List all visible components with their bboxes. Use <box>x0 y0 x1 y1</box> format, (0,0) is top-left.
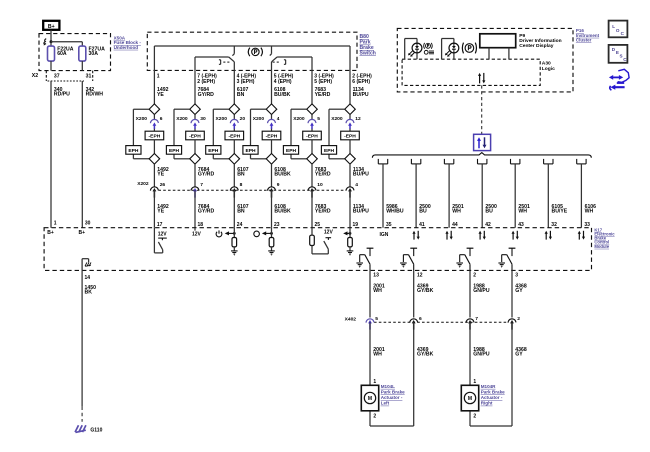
wire B80 pin to splice column 3 <box>233 70 235 104</box>
wire -EPH box to splice column 1 <box>153 140 155 154</box>
svg-text:BN: BN <box>237 172 245 178</box>
wire from B+ to fuse block <box>50 30 52 42</box>
wire 2501 WH label <box>518 204 530 215</box>
wire 340 RD/PU label <box>54 87 70 98</box>
bus drop connector symbol 4 <box>478 159 487 164</box>
svg-text:GY/RD: GY/RD <box>198 92 215 98</box>
svg-text:20: 20 <box>240 116 246 122</box>
ground G110 <box>75 425 102 433</box>
connector X402 terminal pin 2 <box>508 316 520 329</box>
wire 1450 BK ground run <box>81 270 83 406</box>
EPH harness box column 4 <box>243 146 258 155</box>
svg-text:YE: YE <box>157 172 164 178</box>
svg-text:WH: WH <box>452 209 461 215</box>
svg-text:4 (EPH): 4 (EPH) <box>274 79 292 85</box>
connector X402 terminal pin 7 <box>466 316 478 329</box>
svg-text:Actuator -: Actuator - <box>381 395 403 400</box>
svg-text:M: M <box>368 396 372 402</box>
wire X200 to -EPH box column 4 <box>271 129 273 131</box>
svg-text:25: 25 <box>315 222 321 228</box>
svg-text:19: 19 <box>353 222 359 228</box>
svg-text:WH/BU: WH/BU <box>386 209 404 215</box>
svg-text:YE/RD: YE/RD <box>315 92 331 98</box>
wire 2001 WH label above X402 <box>373 283 385 294</box>
svg-text:BU/PU: BU/PU <box>353 209 369 215</box>
park brake telltale icon small <box>424 43 433 49</box>
M104R pin 2 label <box>473 413 476 419</box>
wire 6106 WH label <box>585 204 597 215</box>
fuse block X50A dashed box <box>39 34 111 71</box>
wire splice to X202 column 5 <box>311 164 313 187</box>
module pin 1 label <box>54 221 57 227</box>
module internal pull-up and 12V switch at pin 25 <box>310 228 334 254</box>
A30 logic label <box>542 60 555 71</box>
svg-text:GN/PU: GN/PU <box>473 288 490 294</box>
svg-text:30A: 30A <box>89 51 99 57</box>
wire 1492 YE label below X202 <box>157 204 169 215</box>
svg-text:17: 17 <box>157 222 163 228</box>
description view icon box DESC <box>609 45 628 63</box>
wire splice to X202 column 6 <box>349 164 351 187</box>
wire X200 to -EPH box column 3 <box>233 129 235 131</box>
svg-text:12V: 12V <box>192 232 202 238</box>
wire B80 pin to splice column 4 <box>271 70 273 104</box>
svg-text:B+: B+ <box>48 24 55 30</box>
connector X402 label <box>345 317 357 323</box>
module pin 14 label <box>85 275 91 281</box>
park brake switch B80 dashed box <box>147 32 357 70</box>
svg-text:Module: Module <box>594 244 609 249</box>
module pin 41 label right group <box>419 222 425 228</box>
svg-text:GY: GY <box>515 288 523 294</box>
wire B80 pin to splice column 5 <box>311 70 313 104</box>
svg-text:-EPH: -EPH <box>149 134 161 140</box>
svg-text:13: 13 <box>373 273 379 279</box>
fuse block label X50A <box>114 36 142 50</box>
wire splice to X200 column 3 <box>233 115 235 120</box>
svg-text:EPH: EPH <box>324 148 335 154</box>
svg-text:44: 44 <box>452 222 458 228</box>
svg-text:BU/BK: BU/BK <box>274 92 291 98</box>
splice diamond bottom column 4 <box>266 154 277 165</box>
svg-text:5 (EPH): 5 (EPH) <box>314 79 332 85</box>
svg-text:-EPH: -EPH <box>344 134 356 140</box>
svg-text:-EPH: -EPH <box>189 134 201 140</box>
module internal B+ label pin 1 <box>47 230 54 236</box>
bus drop connector symbol 6 <box>544 159 553 164</box>
svg-text:30: 30 <box>200 116 206 122</box>
wire 2500 BU to module <box>415 164 417 228</box>
svg-text:41: 41 <box>419 222 425 228</box>
svg-text:YE: YE <box>157 209 164 215</box>
wire splice to X202 column 2 <box>194 164 196 187</box>
wire 7683 YE/RD label above X202 <box>315 167 331 178</box>
wire 2501 WH label <box>452 204 464 215</box>
module pin 13 label bottom <box>373 273 379 279</box>
wire splice to X200 column 5 <box>311 115 313 120</box>
svg-text:33: 33 <box>584 222 590 228</box>
module label K17 <box>594 227 615 248</box>
wire 1134 BU/PU label below B80 <box>353 87 369 98</box>
module serial data arrows under pin 32 <box>545 231 552 240</box>
serial data link symbol <box>474 134 491 150</box>
wire -EPH box to splice column 4 <box>271 140 273 154</box>
svg-text:WH: WH <box>518 209 527 215</box>
fuse F22UA 60A <box>48 42 74 61</box>
EPH harness box column 3 <box>206 146 221 155</box>
svg-text:EPH: EPH <box>128 148 139 154</box>
wire B80 pin to splice column 1 <box>153 70 155 104</box>
splice diamond bottom column 3 <box>229 154 240 165</box>
park brake switch label B80 <box>360 34 376 56</box>
wire splice to X202 column 1 <box>153 164 155 187</box>
svg-text:1: 1 <box>473 379 476 385</box>
A30 serial data arrows <box>478 73 485 84</box>
wire 1988 GN/PU label below X402 <box>473 347 490 358</box>
wire X202 to module column 1 <box>153 190 155 227</box>
svg-text:GY/BK: GY/BK <box>417 288 434 294</box>
module serial data arrows under pin 41 <box>412 231 419 240</box>
svg-text:-EPH: -EPH <box>228 134 240 140</box>
svg-text:EPH: EPH <box>208 148 219 154</box>
svg-text:RD/WH: RD/WH <box>86 91 104 97</box>
wire driver to module edge pin 13 <box>369 270 371 317</box>
svg-text:23: 23 <box>274 222 280 228</box>
wire 2500 BU to module <box>481 164 483 228</box>
module pin 35 label right group <box>386 222 392 228</box>
svg-text:2: 2 <box>473 413 476 419</box>
EPH branch wire column 5 <box>291 109 307 159</box>
B80 internal supply bus wire <box>154 45 350 47</box>
wire 4369 GY/BK label below X402 <box>417 347 434 358</box>
connector X402 terminal pin 5 <box>366 316 378 329</box>
location view icon box LOC <box>609 21 628 38</box>
current direction curl at fuse block feed <box>44 39 47 46</box>
svg-text:1: 1 <box>54 221 57 227</box>
wire X202 to module column 4 <box>271 190 273 227</box>
B80 pin label column 1 <box>157 74 160 80</box>
module pin 17 label <box>157 222 163 228</box>
svg-text:31: 31 <box>86 73 92 79</box>
wire 4368 GY label below X402 <box>515 347 527 358</box>
connector X2 <box>32 71 93 81</box>
svg-text:7: 7 <box>475 316 478 322</box>
wire X202 to module column 2 <box>194 190 196 227</box>
wire F22UA to connector X2 <box>50 61 52 71</box>
svg-text:-EPH: -EPH <box>306 134 318 140</box>
svg-text:26: 26 <box>160 182 166 188</box>
wire 1134 BU/PU label above X202 <box>353 167 369 178</box>
wire 6105 BU/YE to module <box>547 164 549 228</box>
connector X202 dashed link line <box>158 189 346 191</box>
P9 label <box>519 33 561 49</box>
wire splice to X202 column 3 <box>233 164 235 187</box>
instrument cluster P16 dashed box <box>397 28 573 92</box>
wire 2001 WH label below X402 <box>373 347 385 358</box>
svg-text:Left: Left <box>381 401 390 406</box>
bus drop connector symbol 1 <box>378 159 387 164</box>
svg-text:14: 14 <box>85 275 91 281</box>
park brake actuator right M104R <box>461 385 478 411</box>
EPH harness box column 2 <box>166 146 181 155</box>
svg-text:BU/PU: BU/PU <box>353 172 369 178</box>
svg-text:10: 10 <box>317 182 323 188</box>
module internal H-bridge driver pin 3 <box>498 248 515 270</box>
wire X200 to -EPH box column 2 <box>194 129 196 131</box>
svg-text:BU: BU <box>485 209 493 215</box>
wire 1988 GN/PU label above X402 <box>473 283 490 294</box>
svg-text:9: 9 <box>277 182 280 188</box>
wire 6107 BN label above X202 <box>237 167 249 178</box>
module pin 25 label <box>315 222 321 228</box>
serial data dashed wire cluster to bus <box>481 85 483 134</box>
svg-text:BU/YE: BU/YE <box>552 209 568 215</box>
park brake indicator LED 2 <box>442 39 459 60</box>
svg-text:2: 2 <box>473 273 476 279</box>
junction dot at fuse bus <box>50 40 53 43</box>
B80 release switch detent marks right <box>273 60 286 65</box>
-EPH harness box column 6 <box>341 131 360 140</box>
connector X200 column 3 <box>216 116 246 129</box>
svg-text:YE/RD: YE/RD <box>315 209 331 215</box>
splice diamond top column 6 <box>345 104 356 115</box>
wire B80 pin to splice column 2 <box>194 70 196 104</box>
B80 park brake button symbol (P) <box>248 48 262 57</box>
park brake actuator left M104L <box>361 385 378 411</box>
park brake indicator LED 1 <box>405 39 422 60</box>
splice diamond bottom column 5 <box>307 154 318 165</box>
B80 apply switch blade left <box>195 57 234 70</box>
M104L label <box>381 384 405 406</box>
wire 342 RD/WH label <box>86 87 104 98</box>
B80 switch contact stub left <box>232 46 234 56</box>
EPH harness box column 1 <box>126 146 141 155</box>
module pin 12 label bottom <box>417 273 423 279</box>
wire 2501 WH to module <box>514 164 516 228</box>
module internal sense input pin 19 <box>343 228 353 256</box>
connector X202 terminal column 4 pin 9 <box>268 182 280 198</box>
connector X202 terminal column 5 pin 10 <box>308 182 323 198</box>
wire B80 bus to pin 2/6 <box>349 46 351 70</box>
svg-text:3 (EPH): 3 (EPH) <box>237 79 255 85</box>
svg-text:5: 5 <box>375 316 378 322</box>
splice diamond top column 5 <box>307 104 318 115</box>
wire 6107 BN label below X202 <box>237 204 249 215</box>
module pin 44 label right group <box>452 222 458 228</box>
svg-text:B+: B+ <box>47 230 54 236</box>
svg-text:Switch: Switch <box>360 50 376 56</box>
module internal H-bridge driver pin 2 <box>456 248 473 270</box>
svg-text:X402: X402 <box>345 317 357 323</box>
module internal B+ label pin 30 <box>79 230 86 236</box>
wire driver to module edge pin 3 <box>511 270 513 317</box>
electronic brake control module K17 dashed box <box>44 228 591 271</box>
svg-text:X200: X200 <box>331 116 343 122</box>
svg-text:12: 12 <box>355 116 361 122</box>
svg-text:5: 5 <box>317 116 320 122</box>
connector X200 column 6 <box>331 116 361 129</box>
bus drop connector symbol 2 <box>411 159 420 164</box>
svg-text:35: 35 <box>386 222 392 228</box>
wire 6105 BU/YE label <box>552 204 568 215</box>
svg-text:BN: BN <box>237 92 245 98</box>
connector X202 label <box>137 181 149 187</box>
park brake telltale icon large <box>462 43 476 54</box>
fuse F27UA 30A <box>79 46 105 61</box>
wire 4369 GY/BK label above X402 <box>417 283 434 294</box>
svg-text:X202: X202 <box>137 181 149 187</box>
svg-text:EPH: EPH <box>286 148 297 154</box>
svg-text:X200: X200 <box>216 116 228 122</box>
svg-text:GY/RD: GY/RD <box>198 209 215 215</box>
svg-text:4: 4 <box>277 116 280 122</box>
module pin 19 label <box>353 222 359 228</box>
svg-text:GY/BK: GY/BK <box>417 352 434 358</box>
svg-text:24: 24 <box>237 222 243 228</box>
connector X202 terminal column 6 pin 4 <box>346 182 358 198</box>
bus drop connector symbol 5 <box>511 159 520 164</box>
svg-text:32: 32 <box>551 222 557 228</box>
svg-text:Park Brake: Park Brake <box>381 390 405 395</box>
wire splice to X202 column 4 <box>271 164 273 187</box>
EPH branch wire column 2 <box>174 109 190 159</box>
wire X202 to module column 3 <box>233 190 235 227</box>
M104L pin 2 label <box>373 413 376 419</box>
wire 342 RD/WH to K17 pin 30 <box>81 81 83 228</box>
module internal H-bridge driver pin 12 <box>400 248 417 270</box>
svg-text:42: 42 <box>485 222 491 228</box>
svg-text:2: 2 <box>373 413 376 419</box>
wire X202 to module column 6 <box>349 190 351 227</box>
A30 logic dashed box <box>402 59 540 85</box>
wire -EPH box to splice column 3 <box>233 140 235 154</box>
wire 4369 GY/BK to M104L pin 2 <box>370 322 414 426</box>
svg-text:GN/PU: GN/PU <box>473 352 490 358</box>
splice diamond bottom column 1 <box>149 154 160 165</box>
B80 switch contact stub right <box>270 46 272 56</box>
svg-text:Right: Right <box>481 401 493 406</box>
connector X202 terminal column 1 pin 26 <box>150 182 165 198</box>
svg-text:L: L <box>612 24 615 29</box>
module pin 18 label <box>198 222 204 228</box>
svg-text:BU/BK: BU/BK <box>274 209 291 215</box>
svg-text:12: 12 <box>417 273 423 279</box>
instrument cluster label P16 <box>576 28 600 42</box>
module serial data arrows under pin 44 <box>445 231 452 240</box>
wire 7683 YE/RD label below B80 <box>315 87 331 98</box>
B80 pin label column 2 <box>197 74 217 85</box>
module serial data arrows under pin 33 <box>578 231 585 240</box>
connector X402 dashed link line <box>374 321 508 323</box>
B80 pin label column 3 <box>237 74 257 85</box>
B80 release switch blade right <box>272 57 313 70</box>
module serial data arrows under pin 42 <box>479 231 486 240</box>
wire -EPH box to splice column 5 <box>311 140 313 154</box>
svg-text:2: 2 <box>517 316 520 322</box>
wire 6107 BN label below B80 <box>237 87 249 98</box>
wire driver to module edge pin 2 <box>469 270 471 317</box>
svg-text:X2: X2 <box>32 73 38 79</box>
module internal H-bridge driver pin 13 <box>356 248 373 270</box>
module pin 32 label right group <box>551 222 557 228</box>
svg-text:BU: BU <box>419 209 427 215</box>
module pin 33 label right group <box>584 222 590 228</box>
svg-text:Center Display: Center Display <box>519 43 554 49</box>
wire 4368 GY to M104R pin 2 <box>470 322 512 426</box>
wire 5986 WH/BU label <box>386 204 404 215</box>
splice diamond top column 3 <box>229 104 240 115</box>
svg-text:X200: X200 <box>253 116 265 122</box>
wire splice to X200 column 6 <box>349 115 351 120</box>
B80 pin label column 4 <box>274 74 294 85</box>
svg-text:30: 30 <box>85 221 91 227</box>
svg-text:X200: X200 <box>176 116 188 122</box>
module pin 23 label <box>274 222 280 228</box>
module internal indicator driver pin 23 <box>254 228 275 256</box>
svg-text:3: 3 <box>515 273 518 279</box>
module pin 30 label <box>85 221 91 227</box>
wire 1492 YE label above X202 <box>157 167 169 178</box>
wire 2501 WH to module <box>448 164 450 228</box>
wire 1134 BU/PU label below X202 <box>353 204 369 215</box>
svg-text:WH: WH <box>373 288 382 294</box>
wire 6108 BU/BK label below B80 <box>274 87 291 98</box>
module pin 2 label bottom <box>473 273 476 279</box>
module pin 3 label bottom <box>515 273 518 279</box>
wire splice to X200 column 1 <box>153 115 155 120</box>
wire X200 to -EPH box column 1 <box>153 129 155 131</box>
svg-text:O: O <box>616 28 620 33</box>
svg-text:S: S <box>620 54 623 59</box>
svg-text:G110: G110 <box>90 427 102 433</box>
EPH branch wire column 1 <box>133 109 149 159</box>
EPH harness box column 5 <box>283 146 298 155</box>
svg-text:Underhood: Underhood <box>114 45 139 50</box>
svg-text:BU/PU: BU/PU <box>353 92 369 98</box>
-EPH harness box column 4 <box>262 131 281 140</box>
svg-text:1: 1 <box>157 74 160 80</box>
svg-text:YE/RD: YE/RD <box>315 172 331 178</box>
wire X200 to -EPH box column 5 <box>311 129 313 131</box>
module pin 24 label <box>237 222 243 228</box>
wire X202 to module column 5 <box>311 190 313 227</box>
EPH branch wire column 6 <box>329 109 345 159</box>
wire -EPH box to splice column 6 <box>349 140 351 154</box>
svg-text:18: 18 <box>198 222 204 228</box>
svg-text:X200: X200 <box>136 116 148 122</box>
wire fuse bus to F27UA <box>51 42 82 46</box>
wire X200 to -EPH box column 6 <box>349 129 351 131</box>
svg-text:IGN: IGN <box>379 232 388 238</box>
splice diamond bottom column 6 <box>345 154 356 165</box>
wire 2500 BU label <box>485 204 497 215</box>
wire F27UA to connector X2 <box>81 61 83 71</box>
EPH branch wire column 3 <box>213 109 229 159</box>
wire splice to X200 column 4 <box>271 115 273 120</box>
svg-text:Park Brake: Park Brake <box>481 390 505 395</box>
svg-text:EPH: EPH <box>169 148 180 154</box>
wire 6108 BU/BK label above X202 <box>274 167 291 178</box>
module internal ground loop pin 14 <box>82 259 91 271</box>
svg-text:GY/RD: GY/RD <box>198 172 215 178</box>
M104R label <box>481 384 505 406</box>
svg-text:YE: YE <box>157 92 164 98</box>
svg-text:12V: 12V <box>158 231 168 237</box>
-EPH harness box column 3 <box>225 131 244 140</box>
svg-text:M: M <box>468 396 472 402</box>
wire -EPH box to splice column 2 <box>194 140 196 154</box>
svg-text:Actuator -: Actuator - <box>481 395 503 400</box>
